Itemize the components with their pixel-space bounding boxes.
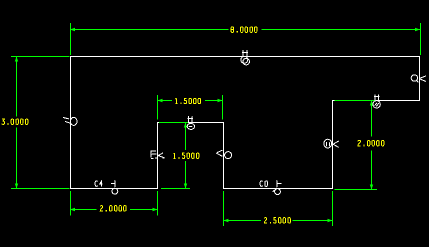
marker right edge midpoint dashes: [420, 76, 426, 81]
dim 2.5000 extension line left: [222, 191, 224, 226]
label C0: [260, 181, 267, 186]
dim text 3.0000: [2, 119, 28, 124]
part outline notch right wall: [222, 122, 224, 189]
marker C0 circle: [275, 189, 281, 195]
marker right step midpoint circle: [373, 101, 380, 108]
marker right step midpoint ticks: [374, 95, 379, 100]
dim 2.5000 extension line right: [332, 191, 334, 226]
dim 3.0000 arrowhead top: [15, 57, 18, 62]
dim 2.0000 bottom-left extension line left: [70, 191, 72, 216]
label C4: [95, 181, 103, 186]
dim 8.0000 extension line left: [70, 23, 72, 55]
part outline notch top edge: [157, 122, 224, 124]
part outline notch left wall: [157, 122, 159, 189]
part outline top edge: [70, 56, 420, 58]
dim text 2.0000 right: [358, 141, 384, 146]
dim 2.5000 arrowhead right: [328, 219, 333, 222]
dim 8.0000 line right segment: [262, 29, 421, 31]
dim 1.5000 notch depth line lower segment: [185, 161, 187, 189]
part outline right step edge: [332, 100, 420, 102]
dim text 1.5000 notch depth: [173, 153, 198, 158]
dim 1.5000 notch width extension line left: [157, 95, 159, 120]
dim 8.0000 arrowhead right: [415, 28, 420, 31]
part outline left edge: [70, 56, 72, 189]
dim 2.0000 right extension line top: [335, 100, 378, 102]
dim 2.5000 arrowhead left: [223, 219, 228, 222]
dim 2.0000 right arrowhead top: [370, 101, 373, 106]
dim text 2.0000 bottom-left: [100, 206, 126, 211]
dim 1.5000 notch width arrowhead left: [158, 99, 163, 102]
dim 2.0000 right extension line bottom: [335, 189, 378, 191]
dim 2.0000 bottom-left arrowhead left: [70, 208, 75, 211]
dim 2.0000 bottom-left extension line right: [156, 191, 158, 216]
marker notch right wall midpoint dashes: [217, 150, 223, 156]
marker left edge midpoint circle: [70, 117, 77, 125]
dim 1.5000 notch width line right segment: [205, 100, 223, 102]
dim 8.0000 extension line right: [420, 23, 422, 55]
dim 3.0000 line upper segment: [16, 56, 18, 117]
dim text 2.5000: [264, 218, 290, 223]
dim text 8.0000: [231, 27, 257, 32]
dim 3.0000 extension line bottom: [11, 188, 70, 190]
dim 2.0000 right line lower segment: [371, 151, 373, 190]
dim 1.5000 notch depth arrowhead top: [184, 123, 187, 128]
part outline bottom left edge: [70, 188, 158, 190]
marker left edge midpoint dashes: [64, 118, 70, 123]
marker C0 tick: [277, 181, 281, 187]
dim 1.5000 notch width arrowhead right: [218, 99, 223, 102]
dim 3.0000 arrowhead bottom: [15, 184, 18, 189]
marker notch left wall midpoint arrow dashes: [159, 153, 165, 158]
dim 2.5000 line right segment: [293, 220, 333, 222]
marker notch top midpoint ticks: [188, 117, 193, 123]
marker notch left wall midpoint sketch: [151, 151, 157, 159]
dim 1.5000 notch width line left segment: [158, 100, 173, 102]
dim 3.0000 line lower segment: [16, 128, 18, 189]
marker right notch wall midpoint circle: [324, 139, 332, 148]
dim 2.0000 right line upper segment: [371, 101, 373, 137]
part outline right edge: [419, 56, 421, 101]
dim 2.0000 bottom-left line left segment: [70, 209, 97, 211]
marker notch top midpoint circle: [187, 123, 194, 129]
marker right edge midpoint circle: [411, 75, 417, 81]
dim 2.0000 right arrowhead bottom: [370, 185, 373, 190]
part outline right notch wall: [332, 100, 334, 189]
marker C4 tick: [111, 181, 115, 187]
dim 2.5000 line left segment: [223, 220, 261, 222]
dim 1.5000 notch width extension line right: [222, 95, 224, 120]
part outline bottom middle edge: [223, 188, 333, 190]
dim 3.0000 extension line top: [11, 56, 70, 58]
marker right notch wall midpoint dashes: [333, 141, 338, 147]
dim 8.0000 line left segment: [70, 29, 229, 31]
dim 2.0000 bottom-left line right segment: [130, 209, 158, 211]
dim 1.5000 notch depth arrowhead bottom: [184, 184, 187, 189]
dim 1.5000 notch depth extension line bottom: [161, 188, 190, 190]
dim 2.0000 bottom-left arrowhead right: [153, 208, 158, 211]
dim text 1.5000 notch width: [175, 98, 200, 103]
marker top edge midpoint ticks: [243, 51, 248, 57]
dim 1.5000 notch depth line upper segment: [185, 123, 187, 151]
dim 1.5000 notch depth extension line top: [159, 122, 188, 124]
marker top edge midpoint circle: [241, 56, 248, 63]
marker C4 circle: [112, 188, 118, 194]
dim 8.0000 arrowhead left: [70, 28, 75, 31]
marker notch right wall midpoint circle: [225, 152, 232, 159]
